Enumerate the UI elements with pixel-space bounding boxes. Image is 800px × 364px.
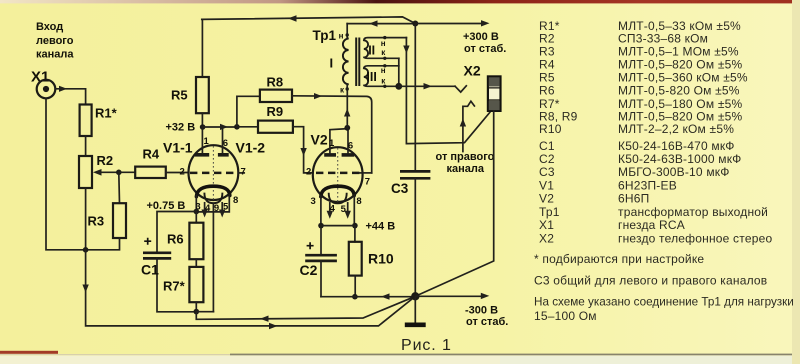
svg-text:гнездо телефонное стерео: гнездо телефонное стерео bbox=[618, 231, 772, 245]
label: from right channel bbox=[436, 151, 495, 175]
resistor R5 bbox=[171, 19, 209, 127]
svg-text:МЛТ-0,5–820 Ом ±5%: МЛТ-0,5–820 Ом ±5% bbox=[618, 58, 742, 72]
svg-text:R10: R10 bbox=[539, 122, 562, 136]
tube V2 heater (pins 4,5) bbox=[327, 193, 351, 219]
node: input ground junction bbox=[83, 247, 89, 253]
resistor R6 bbox=[167, 212, 203, 260]
svg-text:5: 5 bbox=[341, 204, 347, 215]
svg-text:+0.75 В: +0.75 В bbox=[147, 200, 186, 212]
resistor R8 bbox=[237, 75, 372, 173]
wire: -300V feed arrow bbox=[415, 293, 489, 299]
svg-text:III: III bbox=[366, 70, 376, 84]
wire: cathode return to star ground bbox=[321, 293, 415, 299]
svg-text:7: 7 bbox=[365, 177, 370, 188]
svg-text:С3: С3 bbox=[391, 181, 409, 196]
wire: left ground bus to star ground bbox=[82, 250, 415, 329]
wire: cathode bus bbox=[321, 225, 355, 227]
potentiometer R2 bbox=[79, 153, 119, 188]
svg-text:8: 8 bbox=[356, 196, 361, 207]
svg-text:15–100 Ом: 15–100 Ом bbox=[534, 309, 597, 323]
wire: R2 bottom to ground node bbox=[85, 188, 87, 250]
svg-text:Тр1: Тр1 bbox=[313, 28, 337, 43]
capacitor C2 bbox=[300, 226, 337, 297]
transformer Tr1 label bbox=[313, 28, 337, 43]
svg-text:R8: R8 bbox=[267, 75, 284, 90]
tube V2 grid (pins 2,7) bbox=[306, 167, 372, 188]
svg-text:R6: R6 bbox=[539, 84, 555, 98]
svg-text:X1: X1 bbox=[539, 218, 554, 232]
svg-text:7: 7 bbox=[241, 166, 246, 177]
svg-text:R2: R2 bbox=[539, 32, 555, 46]
svg-text:C3: C3 bbox=[539, 165, 555, 179]
svg-text:6Н6П: 6Н6П bbox=[618, 192, 649, 206]
svg-text:R5: R5 bbox=[171, 88, 188, 103]
svg-text:6: 6 bbox=[223, 138, 228, 149]
node: winding output junction (II-k/III-k) bbox=[395, 83, 402, 90]
svg-text:II: II bbox=[368, 44, 375, 58]
tube V2 anodes (pins 1,6) bbox=[324, 128, 354, 157]
wire: top rail from R5 to +300V node bbox=[202, 15, 415, 23]
wire: cathode network to star ground bbox=[196, 296, 415, 322]
svg-text:X2: X2 bbox=[539, 231, 554, 245]
svg-text:5: 5 bbox=[223, 201, 229, 212]
node: V2 anode junction bbox=[344, 125, 350, 131]
svg-text:R4: R4 bbox=[143, 147, 160, 162]
svg-text:МЛТ-0,5–360 кОм ±5%: МЛТ-0,5–360 кОм ±5% bbox=[618, 71, 748, 85]
svg-text:R10: R10 bbox=[368, 251, 394, 267]
svg-text:+44 В: +44 В bbox=[366, 221, 396, 233]
label: input left channel bbox=[36, 21, 74, 60]
svg-text:+32 В: +32 В bbox=[166, 122, 196, 134]
svg-text:R4: R4 bbox=[539, 58, 555, 72]
tube V1 envelope bbox=[189, 145, 239, 202]
node: cathode network ground junction bbox=[194, 309, 214, 315]
svg-text:* подбираются при настройке: * подбираются при настройке bbox=[534, 252, 704, 266]
connector X2 label bbox=[464, 62, 481, 78]
node: V2 cathode right bbox=[352, 223, 358, 229]
svg-text:8: 8 bbox=[233, 195, 238, 206]
svg-text:R6: R6 bbox=[167, 232, 184, 247]
transformer Tr1 core bbox=[356, 38, 359, 87]
svg-text:C1: C1 bbox=[539, 139, 555, 153]
connector X1 (RCA jack) bbox=[37, 80, 56, 99]
svg-text:н: н bbox=[339, 32, 344, 41]
svg-text:МБГО-300В-10 мкФ: МБГО-300В-10 мкФ bbox=[618, 165, 730, 179]
tube V1 labels bbox=[163, 140, 265, 156]
label: +300 V stab bbox=[463, 31, 506, 55]
svg-text:от стаб.: от стаб. bbox=[466, 316, 508, 328]
svg-text:левого: левого bbox=[36, 35, 74, 47]
node: R8/R9 junction bbox=[234, 124, 240, 130]
wire: C3 to star ground bbox=[414, 178, 416, 296]
tube V1 grid (pins 2,7) bbox=[180, 166, 246, 177]
caption: Fig. 1 bbox=[401, 337, 452, 354]
svg-text:R9: R9 bbox=[267, 104, 284, 119]
svg-text:от стаб.: от стаб. bbox=[464, 43, 506, 55]
svg-text:V1-2: V1-2 bbox=[236, 140, 266, 156]
svg-text:C2: C2 bbox=[539, 152, 555, 166]
svg-text:R3: R3 bbox=[88, 214, 105, 229]
svg-text:R1*: R1* bbox=[95, 106, 118, 121]
wire: +300V rail down to C3 bbox=[414, 24, 416, 172]
transformer Tr1 secondary winding III bbox=[364, 64, 399, 88]
svg-text:н: н bbox=[381, 66, 386, 75]
svg-text:С3 общий для левого и правого: С3 общий для левого и правого каналов bbox=[534, 274, 767, 288]
svg-text:н: н bbox=[381, 39, 386, 48]
svg-text:К50-24-63В-1000 мкФ: К50-24-63В-1000 мкФ bbox=[618, 152, 741, 166]
svg-text:9: 9 bbox=[214, 203, 219, 214]
wire: winding II-k to III-k (parallel link) bbox=[398, 58, 400, 86]
svg-text:R3: R3 bbox=[539, 45, 555, 59]
svg-text:V2: V2 bbox=[311, 132, 328, 148]
svg-text:Рис. 1: Рис. 1 bbox=[401, 337, 452, 354]
node: R2 wiper junction bbox=[116, 170, 122, 176]
svg-text:R2: R2 bbox=[97, 153, 114, 168]
resistor R1 bbox=[80, 105, 118, 137]
svg-text:канала: канала bbox=[36, 48, 74, 60]
tube V2 envelope bbox=[313, 147, 363, 204]
svg-text:-300 В: -300 В bbox=[465, 304, 498, 316]
node: +300V rail junction bbox=[412, 21, 418, 27]
label: -300 V stab bbox=[465, 304, 508, 328]
transformer Tr1 primary winding I bbox=[330, 24, 349, 95]
tube V1 anodes (pins 1,6) bbox=[195, 127, 229, 157]
node: C2/R10 bottom junction bbox=[352, 294, 358, 300]
svg-text:I: I bbox=[330, 56, 334, 71]
svg-text:3: 3 bbox=[311, 196, 316, 207]
tube V1 heater (pins 4,9,5) bbox=[201, 193, 229, 218]
connector X2 (stereo phone jack) bbox=[488, 76, 501, 111]
svg-text:СП3-33–68 кОм: СП3-33–68 кОм bbox=[618, 32, 708, 46]
tube V1 cathode arc (pins 3,8) bbox=[195, 186, 238, 212]
resistor R7 bbox=[163, 267, 203, 312]
svg-text:канала: канала bbox=[447, 163, 485, 175]
wire: X1 center pin to R1 top bbox=[55, 86, 85, 105]
resistor R3 bbox=[86, 172, 126, 250]
node: V1 anode +32V bbox=[200, 124, 206, 130]
svg-text:4: 4 bbox=[205, 203, 211, 214]
svg-text:МЛТ-0,5-820 Ом ±5%: МЛТ-0,5-820 Ом ±5% bbox=[618, 84, 740, 98]
resistor R10 bbox=[349, 226, 394, 297]
svg-text:1: 1 bbox=[204, 136, 210, 147]
svg-text:1: 1 bbox=[329, 138, 335, 149]
svg-text:R5: R5 bbox=[539, 71, 555, 85]
svg-text:2: 2 bbox=[306, 167, 311, 178]
svg-text:V1-1: V1-1 bbox=[163, 140, 193, 156]
transformer Tr1 secondary winding II bbox=[364, 36, 407, 60]
svg-text:X2: X2 bbox=[464, 62, 481, 78]
wire: X2 sleeve to star ground bbox=[415, 111, 493, 296]
svg-text:6Н23П-ЕВ: 6Н23П-ЕВ bbox=[618, 179, 677, 193]
wire: +300V node to transformer primary bbox=[347, 20, 415, 26]
tube V2 label bbox=[311, 132, 328, 148]
wire: output hot to X2 contact bbox=[399, 83, 455, 89]
svg-text:К50-24-16В-470 мкФ: К50-24-16В-470 мкФ bbox=[618, 139, 735, 153]
svg-text:Вход: Вход bbox=[36, 21, 63, 33]
label: +0.75 V bbox=[147, 200, 186, 212]
wire: V2 anodes to transformer primary bbox=[344, 89, 350, 128]
wire: +32V node to grid-stopper junction bbox=[203, 124, 237, 130]
X2 upper contact (this channel) bbox=[455, 86, 466, 92]
wire: R6 to R7 bbox=[195, 259, 197, 267]
svg-text:V2: V2 bbox=[539, 192, 554, 206]
wire: X1 shell ground bbox=[46, 98, 86, 250]
label: +32 V bbox=[166, 122, 196, 134]
resistor R4 bbox=[119, 147, 189, 179]
svg-text:гнезда RCA: гнезда RCA bbox=[618, 218, 685, 232]
svg-text:R7*: R7* bbox=[163, 279, 186, 294]
capacitor C3 bbox=[391, 171, 430, 195]
svg-text:C2: C2 bbox=[300, 262, 318, 278]
tube V2 cathode arc (pins 3,8) bbox=[311, 186, 362, 225]
wire: V1 pin 9 shield to ground bus bbox=[212, 203, 214, 312]
svg-text:6: 6 bbox=[348, 140, 353, 151]
capacitor C1 bbox=[141, 212, 196, 312]
node: star ground bbox=[411, 292, 419, 300]
ground symbol bbox=[405, 296, 426, 325]
node: V1 cathode junction bbox=[194, 209, 200, 215]
resistor R9 bbox=[237, 104, 313, 173]
svg-text:Тр1: Тр1 bbox=[539, 205, 560, 219]
parts list (component values) bbox=[534, 19, 794, 323]
svg-text:МЛТ-2–2,2 кОм ±5%: МЛТ-2–2,2 кОм ±5% bbox=[618, 122, 734, 136]
wire: +300V feed arrow bbox=[415, 20, 489, 26]
svg-text:4: 4 bbox=[330, 203, 336, 214]
svg-text:от правого: от правого bbox=[436, 151, 495, 163]
svg-text:трансформатор выходной: трансформатор выходной bbox=[618, 205, 768, 219]
svg-text:+300 В: +300 В bbox=[463, 31, 499, 43]
node: V2 cathode left (+44V) bbox=[318, 223, 324, 229]
connector X1 label bbox=[31, 69, 49, 86]
svg-text:МЛТ-0,5–1 МОм ±5%: МЛТ-0,5–1 МОм ±5% bbox=[618, 45, 739, 59]
svg-text:C1: C1 bbox=[141, 262, 159, 278]
svg-text:V1: V1 bbox=[539, 179, 554, 193]
svg-text:2: 2 bbox=[180, 166, 185, 177]
wire: R1 to R2 bbox=[85, 136, 87, 156]
svg-text:На схеме указано соединение Тр: На схеме указано соединение Тр1 для нагр… bbox=[534, 295, 794, 308]
X2 lower contact (right channel) with feed stub bbox=[460, 101, 475, 151]
label: +44 V bbox=[366, 221, 396, 233]
wire: winding II-n/III-n to X2 sleeve bbox=[403, 38, 490, 144]
